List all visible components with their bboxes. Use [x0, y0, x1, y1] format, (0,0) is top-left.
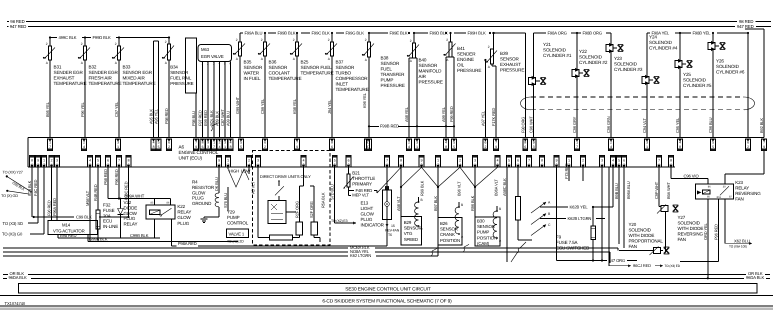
svg-text:SOLENOID: SOLENOID — [629, 228, 652, 233]
svg-text:SOLENOID: SOLENOID — [649, 40, 673, 45]
svg-text:B95 YEL: B95 YEL — [45, 101, 50, 117]
svg-text:B98 RED: B98 RED — [60, 233, 77, 238]
svg-text:SENSOR: SENSOR — [336, 65, 355, 70]
svg-text:SENSOR EGR: SENSOR EGR — [123, 70, 153, 75]
svg-text:EGR VALVE: EGR VALVE — [201, 54, 224, 59]
svg-text:AIR: AIR — [419, 74, 427, 79]
svg-text:F99A BLU: F99A BLU — [245, 31, 263, 36]
svg-text:LIGHT: LIGHT — [361, 206, 374, 211]
svg-text:J94 YEL: J94 YEL — [327, 99, 332, 114]
svg-text:R96 BLK: R96 BLK — [470, 195, 475, 211]
svg-text:TURBO: TURBO — [336, 71, 352, 76]
svg-text:R99 BLK: R99 BLK — [420, 180, 425, 196]
svg-text:8: 8 — [153, 145, 155, 149]
svg-text:SENSOR: SENSOR — [269, 65, 288, 70]
svg-text:5: 5 — [712, 145, 714, 149]
svg-text:REV-FAN: REV-FAN — [385, 229, 400, 233]
svg-text:B35: B35 — [244, 60, 252, 65]
svg-text:9: 9 — [195, 145, 197, 149]
svg-text:SOLENOID: SOLENOID — [716, 64, 740, 69]
svg-text:F99H BLK: F99H BLK — [468, 31, 487, 36]
svg-text:4: 4 — [219, 145, 221, 149]
svg-text:IN FUEL: IN FUEL — [244, 76, 261, 81]
svg-text:THROTTLE: THROTTLE — [352, 176, 375, 181]
svg-text:A6: A6 — [179, 145, 185, 150]
svg-text:F98 ORG: F98 ORG — [520, 117, 525, 133]
svg-text:CYLINDER #2: CYLINDER #2 — [579, 60, 608, 65]
svg-text:2: 2 — [168, 145, 170, 149]
svg-text:A98 VLT: A98 VLT — [396, 196, 401, 211]
svg-text:WATER: WATER — [244, 71, 260, 76]
svg-text:P96 RED: P96 RED — [714, 224, 719, 240]
svg-text:B40: B40 — [419, 58, 427, 63]
svg-text:OIL: OIL — [457, 63, 465, 68]
svg-text:Y24: Y24 — [649, 35, 657, 40]
svg-text:TEMPERATURE: TEMPERATURE — [123, 81, 156, 86]
svg-text:F17K RED: F17K RED — [491, 108, 496, 126]
svg-text:HIGH: HIGH — [229, 169, 239, 174]
svg-text:R5A BLK: R5A BLK — [321, 192, 326, 208]
svg-text:F73 RED: F73 RED — [564, 163, 569, 179]
svg-text:7: 7 — [368, 145, 370, 149]
svg-text:SENDER EGR: SENDER EGR — [89, 70, 119, 75]
svg-text:FUEL: FUEL — [381, 67, 393, 72]
svg-text:C96 VIO: C96 VIO — [684, 174, 700, 179]
svg-text:C23 BLK: C23 BLK — [27, 180, 32, 196]
svg-text:6: 6 — [202, 145, 204, 149]
svg-text:C96 GRY: C96 GRY — [572, 116, 577, 133]
svg-text:ECU: ECU — [103, 219, 112, 224]
svg-text:PUMP: PUMP — [227, 215, 240, 220]
svg-text:K23: K23 — [735, 180, 743, 185]
svg-text:TX1074740: TX1074740 — [5, 301, 26, 306]
svg-text:C99B BLK: C99B BLK — [130, 233, 149, 238]
svg-text:9: 9 — [763, 145, 765, 149]
svg-text:7: 7 — [576, 145, 578, 149]
svg-text:ENGINE: ENGINE — [457, 57, 474, 62]
svg-text:EXHAUST: EXHAUST — [54, 76, 75, 81]
svg-text:A5 VLT: A5 VLT — [251, 181, 256, 194]
svg-text:F99D BLK: F99D BLK — [93, 35, 112, 40]
svg-text:FAN: FAN — [735, 197, 743, 202]
svg-text:CRANK: CRANK — [440, 232, 455, 237]
svg-text:PUMP: PUMP — [477, 230, 489, 235]
svg-text:POSITION: POSITION — [477, 235, 497, 240]
svg-text:MIXED AIR: MIXED AIR — [123, 76, 146, 81]
svg-text:(CAM): (CAM) — [477, 241, 490, 246]
svg-text:F96 RED: F96 RED — [47, 200, 52, 216]
svg-text:F97 RED: F97 RED — [198, 110, 203, 126]
svg-text:SOLENOID: SOLENOID — [614, 62, 638, 67]
svg-text:PRESSURE: PRESSURE — [170, 81, 193, 86]
svg-text:F32: F32 — [103, 203, 111, 208]
svg-text:PUMP: PUMP — [381, 78, 394, 83]
svg-text:A99 BLU: A99 BLU — [226, 111, 231, 126]
svg-text:V22: V22 — [124, 200, 132, 205]
svg-text:R2F ORG: R2F ORG — [294, 201, 299, 218]
svg-text:PLUG: PLUG — [177, 221, 189, 226]
svg-text:EXHAUST: EXHAUST — [500, 62, 521, 67]
svg-text:B92 BLK: B92 BLK — [759, 118, 764, 133]
svg-text:SE30 ENGINE CONTROL UNIT CIRCU: SE30 ENGINE CONTROL UNIT CIRCUIT — [345, 287, 431, 293]
svg-text:F98 BLU: F98 BLU — [191, 111, 196, 126]
svg-text:CYLINDER #4: CYLINDER #4 — [649, 46, 678, 51]
svg-text:SOLENOID: SOLENOID — [678, 221, 701, 226]
svg-text:A98 YEL: A98 YEL — [404, 106, 409, 122]
svg-text:1: 1 — [117, 145, 119, 149]
svg-text:9: 9 — [495, 145, 497, 149]
svg-text:VALVE 1: VALVE 1 — [229, 231, 245, 236]
svg-text:SOLENOID: SOLENOID — [579, 55, 603, 60]
svg-text:PRESSURE: PRESSURE — [381, 83, 405, 88]
svg-text:PLUG: PLUG — [124, 216, 136, 221]
svg-text:F99G BLK: F99G BLK — [346, 31, 365, 36]
svg-text:RESISTOR: RESISTOR — [192, 185, 215, 190]
svg-text:8: 8 — [445, 145, 447, 149]
svg-text:Y26: Y26 — [716, 59, 724, 64]
svg-text:F96 RED: F96 RED — [114, 169, 119, 185]
svg-text:K62B YEL: K62B YEL — [570, 204, 589, 209]
svg-text:1: 1 — [416, 145, 418, 149]
svg-text:VTG: VTG — [404, 231, 413, 236]
svg-text:C94 VLT: C94 VLT — [642, 118, 647, 133]
svg-text:TEMPERATURE: TEMPERATURE — [89, 81, 122, 86]
svg-text:F98B YEL: F98B YEL — [693, 31, 712, 36]
svg-text:B96A VLT: B96A VLT — [494, 179, 499, 196]
svg-text:A99 YEL: A99 YEL — [441, 106, 446, 122]
svg-text:B97 BLK: B97 BLK — [433, 196, 438, 211]
svg-text:PRIMARY: PRIMARY — [352, 181, 372, 186]
svg-text:FRESH AIR: FRESH AIR — [89, 76, 113, 81]
svg-text:REVERSING: REVERSING — [678, 232, 704, 237]
svg-text:X62 BLU: X62 BLU — [734, 239, 750, 244]
svg-text:B31: B31 — [54, 65, 62, 70]
svg-text:5: 5 — [453, 145, 455, 149]
svg-text:7: 7 — [213, 145, 215, 149]
svg-text:SENSOR: SENSOR — [419, 63, 438, 68]
svg-text:4: 4 — [408, 145, 410, 149]
svg-text:F96A RED: F96A RED — [52, 198, 57, 216]
svg-text:POSITION: POSITION — [440, 238, 460, 243]
svg-text:9: 9 — [296, 145, 298, 149]
svg-text:PLUG: PLUG — [192, 196, 204, 201]
svg-text:S76 BLU: S76 BLU — [223, 193, 228, 208]
svg-text:C99 YEL: C99 YEL — [260, 98, 265, 114]
svg-text:SPEED: SPEED — [404, 237, 418, 242]
svg-text:C97 YEL: C97 YEL — [114, 101, 119, 117]
svg-text:WITH DIODE: WITH DIODE — [629, 233, 655, 238]
svg-text:Y22: Y22 — [579, 49, 587, 54]
svg-text:TEMPERATURE: TEMPERATURE — [301, 71, 334, 76]
svg-text:Y25: Y25 — [683, 72, 691, 77]
svg-text:MANIFOLD: MANIFOLD — [419, 69, 443, 74]
svg-text:947 RED: 947 RED — [10, 24, 27, 29]
svg-text:6-CD SKIDDER SYSTEM FUNCTIONAL: 6-CD SKIDDER SYSTEM FUNCTIONAL SCHEMATIC… — [322, 298, 452, 304]
svg-text:F99C BLK: F99C BLK — [312, 31, 331, 36]
svg-text:2: 2 — [264, 145, 266, 149]
svg-text:447 ORG: 447 ORG — [609, 258, 626, 263]
svg-text:GLOW: GLOW — [177, 215, 191, 220]
svg-text:S7D BLU: S7D BLU — [330, 184, 335, 200]
svg-text:CYLINDER #5: CYLINDER #5 — [683, 83, 712, 88]
svg-text:CONTROL: CONTROL — [227, 220, 249, 225]
svg-text:Y20: Y20 — [629, 222, 637, 227]
svg-text:TEMPERATURE: TEMPERATURE — [54, 81, 87, 86]
svg-text:Y23: Y23 — [614, 56, 622, 61]
svg-text:MEP VLT: MEP VLT — [352, 192, 369, 197]
svg-text:S2F ORG: S2F ORG — [309, 201, 314, 218]
svg-text:CYLINDER #6: CYLINDER #6 — [716, 70, 745, 75]
svg-text:96DA BLK: 96DA BLK — [746, 275, 765, 280]
svg-text:8: 8 — [679, 145, 681, 149]
svg-text:B25: B25 — [301, 60, 309, 65]
svg-text:B32: B32 — [89, 65, 97, 70]
svg-text:E99 RED: E99 RED — [203, 110, 208, 126]
svg-text:C96 WHT: C96 WHT — [529, 116, 534, 133]
svg-text:B38: B38 — [381, 56, 389, 61]
svg-text:1: 1 — [646, 145, 648, 149]
svg-text:G99 WHT: G99 WHT — [235, 96, 240, 114]
svg-text:B21: B21 — [352, 171, 360, 176]
svg-text:B33: B33 — [123, 65, 131, 70]
svg-text:K96 YEL: K96 YEL — [362, 92, 367, 108]
svg-text:TO (X2) 2D: TO (X2) 2D — [227, 240, 244, 244]
svg-text:GLOW: GLOW — [124, 211, 138, 216]
svg-text:SENDER: SENDER — [457, 52, 476, 57]
svg-text:4: 4 — [83, 145, 85, 149]
svg-text:2: 2 — [485, 145, 487, 149]
svg-text:B30: B30 — [477, 219, 485, 224]
svg-text:SENSOR: SENSOR — [500, 57, 519, 62]
svg-text:5: 5 — [158, 145, 160, 149]
svg-text:C9P WHT: C9P WHT — [654, 181, 659, 199]
svg-text:COMPRESSOR: COMPRESSOR — [336, 76, 369, 81]
svg-text:B9B BLU: B9B BLU — [614, 183, 619, 199]
svg-text:96CJ RED: 96CJ RED — [633, 263, 651, 268]
svg-text:5: 5 — [240, 145, 242, 149]
svg-text:A95 YEL: A95 YEL — [154, 108, 159, 124]
svg-text:B39: B39 — [500, 51, 508, 56]
svg-text:C96 GRN: C96 GRN — [606, 116, 611, 133]
svg-text:GLOW: GLOW — [192, 190, 206, 195]
svg-text:TO (X) GD: TO (X) GD — [1, 194, 18, 198]
svg-text:K62B LTGRN: K62B LTGRN — [568, 216, 592, 221]
svg-text:TRANSFER: TRANSFER — [381, 72, 406, 77]
svg-text:RELAY: RELAY — [124, 222, 138, 227]
svg-text:4: 4 — [610, 145, 612, 149]
svg-text:B: B — [421, 198, 423, 202]
svg-text:IN-LINE: IN-LINE — [103, 224, 118, 229]
svg-text:Y21: Y21 — [543, 42, 551, 47]
svg-text:B9A WHT: B9A WHT — [666, 182, 671, 199]
svg-text:F99B BLK: F99B BLK — [278, 31, 296, 36]
svg-text:WITH DIODE: WITH DIODE — [678, 226, 704, 231]
svg-text:3: 3 — [533, 145, 535, 149]
svg-text:F98B ORG: F98B ORG — [583, 31, 603, 36]
svg-text:B41: B41 — [457, 46, 465, 51]
svg-text:SENSOR: SENSOR — [440, 227, 458, 232]
svg-text:1: 1 — [224, 145, 226, 149]
svg-text:6: 6 — [524, 145, 526, 149]
svg-text:K98 YEL: K98 YEL — [292, 98, 297, 114]
svg-text:GLOW: GLOW — [361, 212, 375, 217]
svg-text:UNIT (ECU): UNIT (ECU) — [179, 156, 203, 161]
svg-text:6: 6 — [331, 145, 333, 149]
svg-text:K62 LTGRN: K62 LTGRN — [350, 253, 371, 258]
svg-text:COOLANT: COOLANT — [269, 71, 291, 76]
svg-text:CYLINDER #1: CYLINDER #1 — [543, 53, 572, 58]
svg-text:K22: K22 — [177, 204, 185, 209]
svg-text:F98A RED: F98A RED — [178, 241, 197, 246]
svg-text:B: B — [461, 203, 463, 207]
svg-text:B36: B36 — [269, 60, 277, 65]
svg-text:B96A BLU: B96A BLU — [626, 181, 631, 199]
svg-text:INDICATOR: INDICATOR — [361, 223, 385, 228]
svg-text:A98C BLK: A98C BLK — [502, 178, 507, 196]
svg-text:M63: M63 — [201, 47, 210, 52]
svg-text:B: B — [499, 207, 501, 211]
svg-text:7: 7 — [49, 145, 51, 149]
svg-text:M14: M14 — [62, 223, 71, 228]
svg-text:3: 3 — [207, 145, 209, 149]
svg-text:M98 VLT: M98 VLT — [85, 190, 90, 206]
svg-text:C99A WHT: C99A WHT — [124, 193, 144, 198]
svg-text:SENSOR FUEL: SENSOR FUEL — [301, 65, 333, 70]
svg-text:2: 2 — [747, 145, 749, 149]
svg-text:A97 YEL: A97 YEL — [480, 110, 485, 126]
svg-text:F4C RED: F4C RED — [33, 179, 38, 196]
svg-text:F99 RED: F99 RED — [449, 106, 454, 122]
svg-text:R4: R4 — [192, 180, 198, 185]
svg-text:87A: 87A — [717, 196, 722, 199]
svg-text:SOLENOID: SOLENOID — [683, 78, 707, 83]
svg-text:B26: B26 — [440, 221, 448, 226]
svg-text:947 RED: 947 RED — [737, 24, 754, 29]
svg-text:F98 RED: F98 RED — [164, 108, 169, 124]
svg-text:B29: B29 — [404, 220, 412, 225]
svg-text:GROUND: GROUND — [192, 201, 212, 206]
svg-text:P98 RED: P98 RED — [103, 169, 108, 185]
svg-text:SENSOR: SENSOR — [244, 65, 263, 70]
svg-text:TO (XX) Y27: TO (XX) Y27 — [3, 170, 23, 174]
svg-text:PROPORTIONAL: PROPORTIONAL — [629, 239, 664, 244]
svg-text:SQL BLK: SQL BLK — [209, 110, 214, 126]
svg-text:TO (X3) G0: TO (X3) G0 — [2, 232, 23, 237]
svg-text:TO (X3) ED: TO (X3) ED — [665, 264, 681, 268]
svg-text:TO (X3) SD: TO (X3) SD — [3, 221, 23, 226]
svg-text:DIODE: DIODE — [124, 205, 138, 210]
svg-text:C96 BLU: C96 BLU — [708, 117, 713, 133]
svg-text:FUEL RAIL: FUEL RAIL — [170, 76, 192, 81]
svg-text:SENDER EGR: SENDER EGR — [54, 70, 84, 75]
svg-text:Y29: Y29 — [227, 210, 235, 215]
svg-text:PRESSURE: PRESSURE — [457, 68, 481, 73]
svg-text:20A: 20A — [103, 213, 111, 218]
svg-text:C95 YEL: C95 YEL — [675, 117, 680, 133]
svg-text:E13: E13 — [361, 201, 369, 206]
svg-text:F98A ORG: F98A ORG — [548, 31, 567, 36]
svg-text:PRESSURE: PRESSURE — [500, 68, 524, 73]
svg-text:B96 VLT: B96 VLT — [457, 181, 462, 196]
svg-text:C87 WHT: C87 WHT — [220, 109, 225, 126]
svg-text:F96 YEL: F96 YEL — [80, 101, 85, 117]
svg-text:PRESSURE: PRESSURE — [419, 80, 443, 85]
svg-text:FAN: FAN — [629, 244, 637, 249]
svg-text:SENSOR: SENSOR — [477, 224, 495, 229]
svg-text:SOLENOID: SOLENOID — [543, 48, 567, 53]
svg-text:FUSE 7.5A: FUSE 7.5A — [556, 240, 578, 245]
svg-text:F99B RED: F99B RED — [380, 124, 399, 129]
svg-text:15: 15 — [391, 224, 395, 228]
svg-text:CYLINDER #3: CYLINDER #3 — [614, 67, 643, 72]
svg-text:ORD YEL: ORD YEL — [703, 222, 708, 240]
svg-text:T6: T6 — [388, 233, 392, 237]
svg-text:INLET: INLET — [336, 82, 349, 87]
svg-text:PLUG: PLUG — [361, 217, 373, 222]
svg-text:B34: B34 — [170, 65, 178, 70]
svg-text:R4B RED: R4B RED — [93, 184, 98, 201]
svg-text:TO (X6# 100): TO (X6# 100) — [729, 245, 747, 249]
svg-text:499C BLK: 499C BLK — [59, 35, 77, 40]
svg-text:DK BLU: DK BLU — [214, 177, 219, 191]
svg-text:FAN: FAN — [678, 237, 686, 242]
svg-text:B37: B37 — [336, 60, 344, 65]
svg-text:RELAY: RELAY — [177, 210, 191, 215]
svg-text:REVERSING: REVERSING — [735, 191, 761, 196]
svg-text:TEMPERATURE: TEMPERATURE — [336, 87, 369, 92]
svg-text:FUSE: FUSE — [103, 208, 115, 213]
svg-text:Y27: Y27 — [678, 215, 686, 220]
svg-text:RELAY: RELAY — [735, 186, 749, 191]
svg-text:A89 BLK: A89 BLK — [215, 111, 220, 126]
svg-text:SENSOR: SENSOR — [381, 61, 400, 66]
svg-text:TO (X2) E3: TO (X2) E3 — [331, 219, 348, 223]
svg-text:F99E BLK: F99E BLK — [390, 31, 408, 36]
svg-text:8: 8 — [230, 145, 232, 149]
svg-text:96DA BLK: 96DA BLK — [9, 275, 28, 280]
